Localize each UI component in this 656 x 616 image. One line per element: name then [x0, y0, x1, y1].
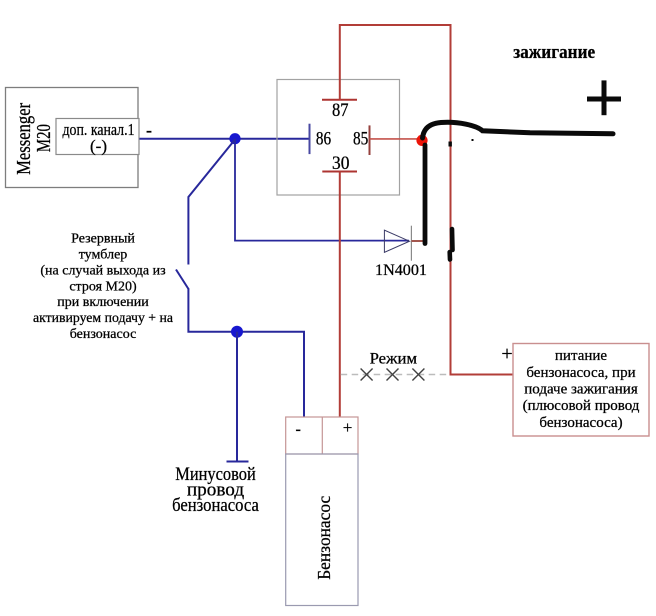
svg-text:M20: M20	[33, 124, 55, 152]
dashed cut line with x marks	[341, 369, 449, 381]
svg-text:бензонасоса: бензонасоса	[172, 495, 259, 516]
feed box питание бензонасоса	[513, 344, 649, 437]
svg-text:Резервный: Резервный	[71, 232, 135, 247]
svg-text:87: 87	[332, 101, 349, 121]
node junction dot B	[231, 326, 243, 338]
svg-text:-: -	[296, 421, 301, 438]
svg-text:1N4001: 1N4001	[375, 262, 427, 279]
svg-text:Бензонасос: Бензонасос	[314, 496, 334, 580]
node junction dot A	[229, 133, 240, 144]
svg-text:подаче зажигания: подаче зажигания	[524, 382, 638, 398]
svg-text:(-): (-)	[90, 136, 107, 155]
diode 1N4001	[375, 226, 427, 279]
wire thick black marker dash on red line	[450, 229, 453, 260]
wire thick black marker to ignition	[423, 122, 614, 138]
wire blue switch bottom to node B	[188, 289, 304, 418]
wire red relay 87 up and over to feed box	[340, 25, 513, 375]
svg-text:+: +	[343, 418, 353, 437]
svg-text:бензонасоса): бензонасоса)	[539, 415, 622, 431]
svg-text:питание: питание	[555, 348, 608, 364]
output доп. канал.1 (-) box	[56, 119, 152, 156]
svg-text:-: -	[146, 120, 152, 140]
svg-text:активируем подачу + на: активируем подачу + на	[33, 311, 174, 326]
relay pin 87	[322, 100, 357, 121]
svg-text:Режим: Режим	[370, 351, 417, 368]
svg-text:86: 86	[316, 129, 331, 149]
symbol ignition plus	[587, 80, 621, 115]
switch S1 reserve toggle	[176, 270, 189, 290]
svg-text:бензонасоса, при: бензонасоса, при	[526, 365, 635, 381]
label minus lead text block	[172, 464, 259, 516]
black speck marks near node	[449, 139, 474, 147]
svg-text:85: 85	[353, 129, 368, 149]
svg-text:(плюсовой провод: (плюсовой провод	[523, 398, 640, 414]
relay pin 30	[322, 154, 357, 174]
relay K1 body	[277, 80, 400, 196]
node red dot at 85	[416, 135, 427, 146]
svg-text:+: +	[501, 343, 512, 365]
svg-text:(на случай выхода из: (на случай выхода из	[40, 263, 166, 278]
wire red relay 30 down to fuel pump plus	[339, 172, 341, 418]
fuel pump terminal row	[286, 417, 358, 454]
wire red relay 85 to node	[370, 138, 422, 140]
wire thick black marker down from dot	[423, 145, 428, 244]
module Messenger M20 box	[6, 88, 139, 188]
wire blue node A down to diode	[235, 139, 409, 241]
wire blue node B down to minus lead end	[227, 332, 249, 462]
fuel pump body Бензонасос	[286, 454, 358, 606]
svg-text:при включении: при включении	[57, 295, 149, 310]
svg-text:зажигание: зажигание	[513, 42, 595, 63]
svg-text:строя М20): строя М20)	[69, 279, 137, 294]
wire blue M20 output to relay pin 86	[140, 138, 309, 140]
relay pin 85	[353, 125, 370, 155]
label reserve toggle text block	[33, 232, 174, 342]
svg-text:Messenger: Messenger	[13, 103, 35, 175]
svg-text:тумблер: тумблер	[79, 248, 128, 263]
relay pin 86	[310, 124, 332, 154]
svg-text:бензонасос: бензонасос	[70, 327, 137, 342]
wire blue diagonal to switch	[188, 140, 235, 265]
